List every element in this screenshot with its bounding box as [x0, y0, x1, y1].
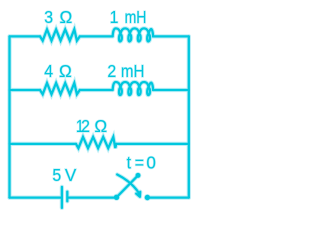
svg-text:mH: mH	[125, 7, 147, 27]
svg-text:t: t	[127, 153, 132, 173]
switch closing motion arc	[117, 175, 139, 194]
svg-text:1: 1	[110, 7, 119, 27]
resistor R2 4 ohm	[40, 83, 80, 94]
inductor L1 1 mH	[113, 28, 154, 41]
battery V1 short plate	[66, 192, 68, 202]
wire: L1 to top-right	[153, 35, 189, 37]
svg-text:2: 2	[107, 61, 116, 81]
switch S1 open blade	[117, 175, 139, 197]
resistor R3 12 ohm	[76, 137, 116, 148]
wire: left to R3	[10, 143, 77, 145]
label switch time t = 0	[127, 152, 157, 173]
switch S1 right terminal dot	[145, 195, 150, 200]
switch S1 blade tip dot	[136, 173, 141, 178]
battery V1 long plate	[61, 187, 63, 208]
wire: R2 to L2	[80, 89, 113, 91]
label L2 value 2 mH	[107, 61, 144, 82]
label battery value 5 V	[52, 165, 76, 186]
wire: top-left to R1	[10, 35, 41, 37]
switch arc arrowhead	[136, 192, 140, 197]
wire: bottom-left to battery	[10, 196, 61, 198]
svg-text:4: 4	[44, 61, 53, 81]
wire: outer right vertical	[188, 36, 190, 197]
wire: L2 to right	[153, 89, 189, 91]
svg-text:Ω: Ω	[59, 7, 72, 28]
wire: outer left vertical	[8, 36, 10, 197]
wire: switch to bottom-right	[147, 196, 188, 198]
svg-text:0: 0	[146, 152, 156, 173]
inductor L2 2 mH	[113, 82, 154, 95]
label R1 value 3 ohm	[44, 7, 72, 28]
svg-text:Ω: Ω	[94, 115, 107, 136]
svg-text:3: 3	[44, 7, 53, 27]
svg-text:5: 5	[52, 165, 61, 185]
resistor R1 3 ohm	[40, 29, 80, 40]
svg-text:Ω: Ω	[59, 60, 72, 81]
switch S1 left terminal dot	[114, 195, 119, 200]
svg-text:2: 2	[81, 116, 90, 136]
svg-text:mH: mH	[121, 61, 145, 82]
wire: battery to switch	[69, 196, 115, 198]
wire: R3 to right	[116, 143, 189, 145]
wire: left to R2	[10, 89, 41, 91]
label R3 value 12 ohm	[76, 115, 107, 136]
wire: R1 to L1	[80, 35, 113, 37]
svg-text:=: =	[135, 153, 144, 173]
label R2 value 4 ohm	[44, 60, 71, 81]
svg-text:V: V	[65, 165, 77, 186]
label L1 value 1 mH	[110, 7, 147, 27]
